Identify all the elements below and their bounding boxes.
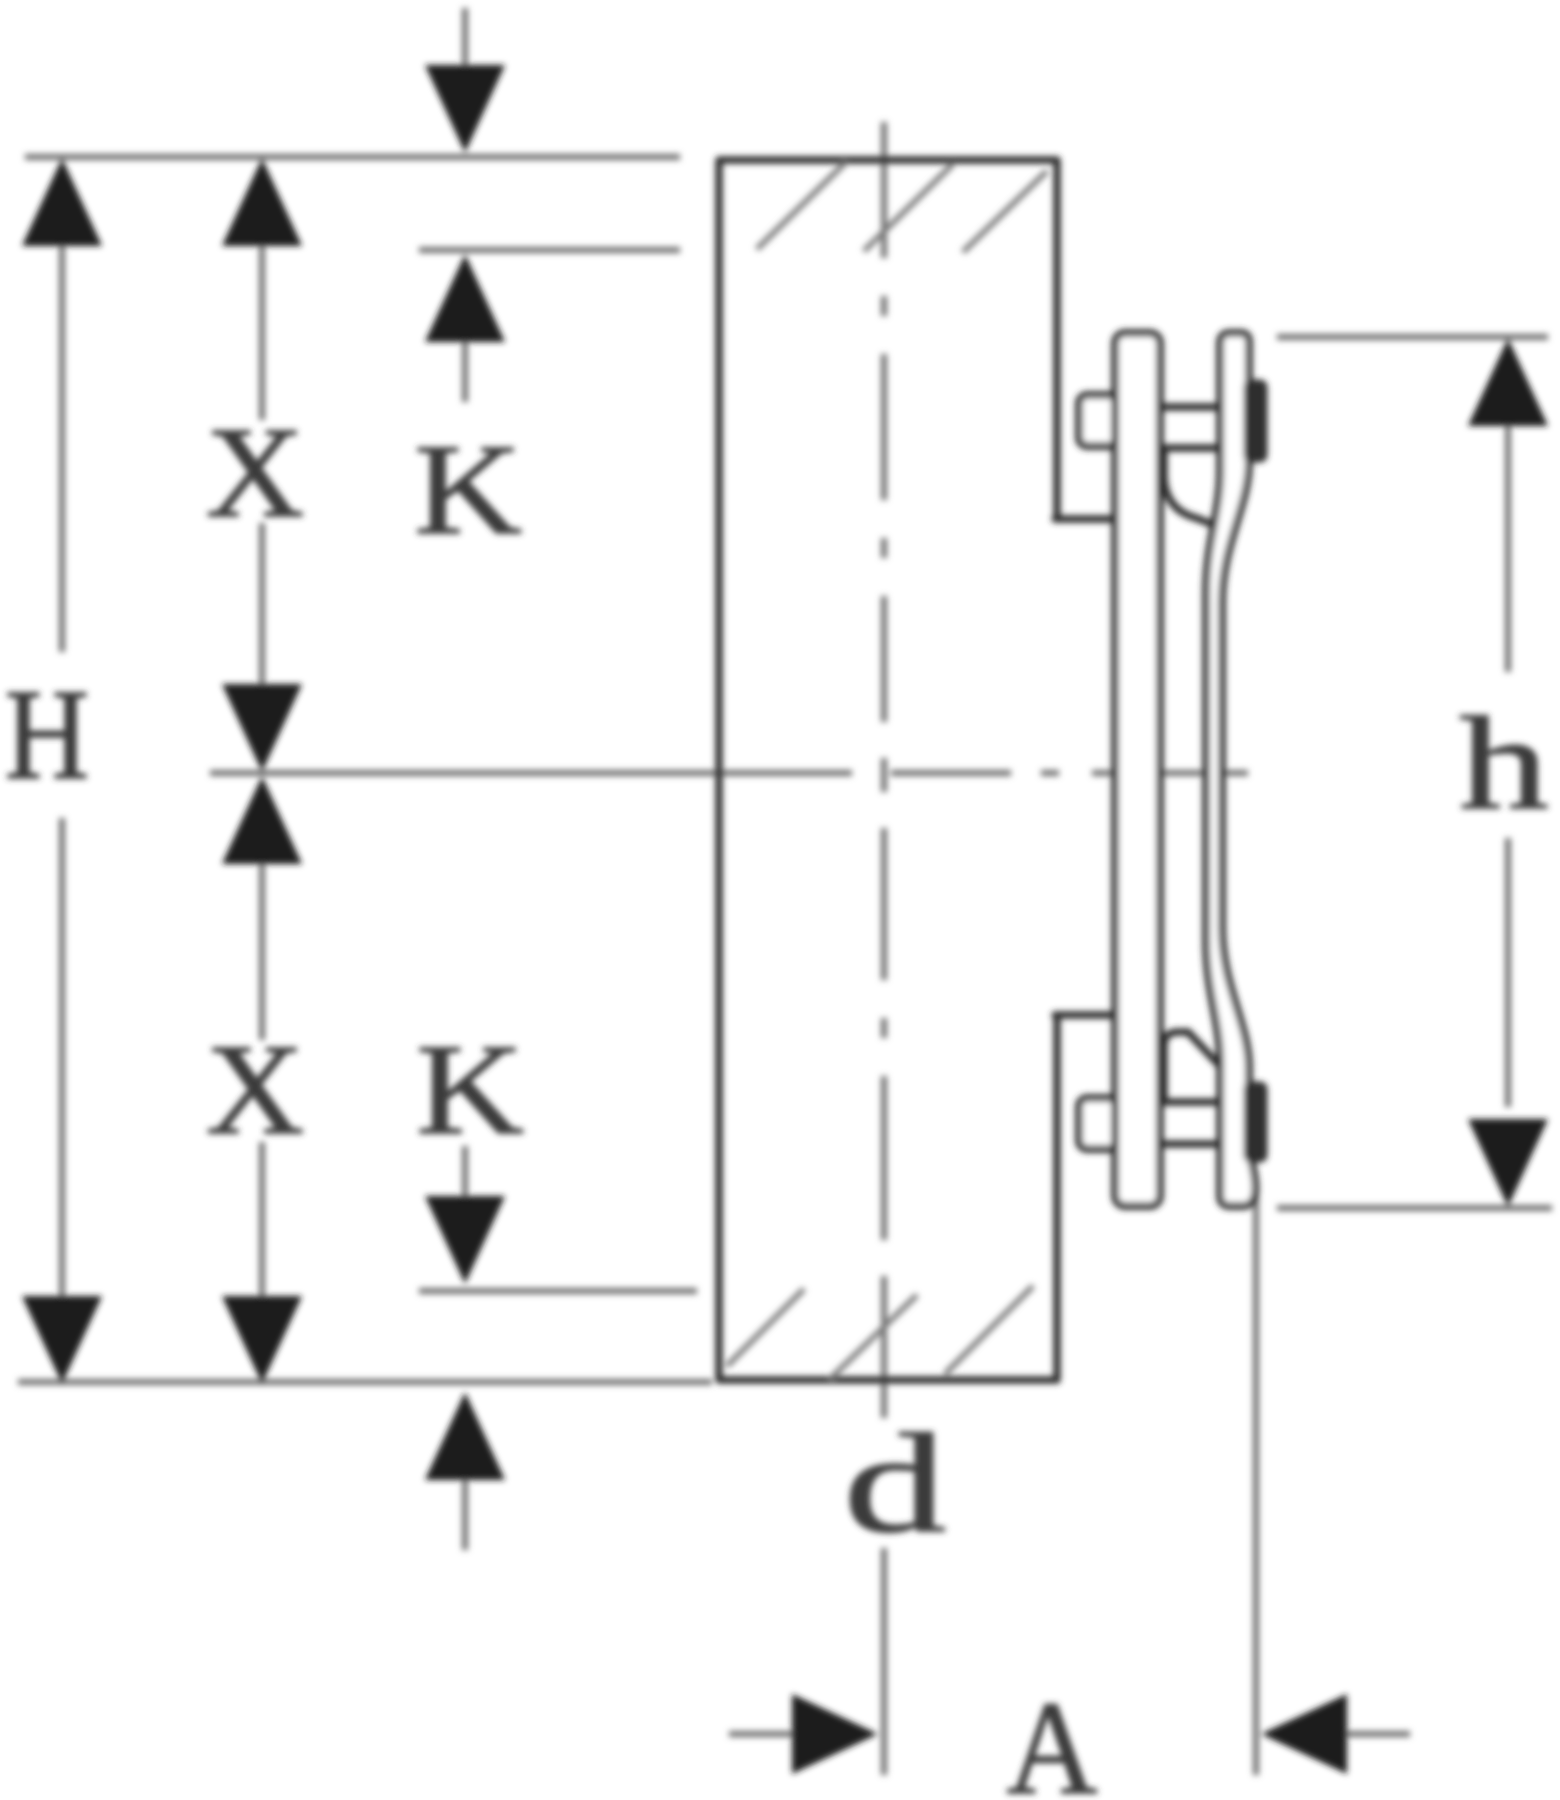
extension line top K <box>419 247 680 253</box>
dimension d arrow <box>729 1731 800 1737</box>
svg-text:H: H <box>5 662 89 806</box>
dimension H shaft <box>59 243 65 1300</box>
svg-text:X: X <box>206 400 305 544</box>
svg-text:A: A <box>1007 1674 1098 1800</box>
casting bottom <box>1164 1032 1218 1102</box>
bolt head bottom <box>1079 1098 1122 1149</box>
dimension K bottom shafts <box>462 1146 468 1550</box>
nut bottom <box>1245 1083 1266 1161</box>
dimension X bottom shaft <box>259 858 265 1298</box>
dimension H arrows <box>22 158 102 246</box>
extension line A vertical <box>1253 1190 1259 1775</box>
dimension X top arrows <box>222 158 302 246</box>
extension line bottom right <box>1277 1205 1552 1211</box>
dimension A arrow <box>1341 1731 1410 1737</box>
dimension K top shafts <box>462 8 468 402</box>
hatch top <box>757 162 1047 252</box>
dimension h shaft <box>1505 425 1511 1107</box>
dimension X bottom arrows <box>222 776 302 864</box>
clamp plate left <box>1115 333 1160 1206</box>
centerline vertical <box>881 122 887 1775</box>
dimension X top shaft <box>259 243 265 690</box>
svg-text:d: d <box>844 1405 947 1562</box>
bolt head top <box>1079 395 1122 446</box>
svg-text:K: K <box>416 1018 524 1162</box>
centerline horizontal <box>210 770 1248 776</box>
hatch bottom <box>727 1286 1033 1379</box>
dimension h arrows <box>1468 338 1548 426</box>
dimension K top arrows <box>425 65 505 153</box>
dimension K bottom arrows <box>425 1196 505 1284</box>
svg-text:X: X <box>206 1017 305 1161</box>
clamp plate right <box>1206 333 1255 1206</box>
extension line top <box>25 154 680 160</box>
bolt shaft bottom <box>1160 1102 1218 1144</box>
svg-text:h: h <box>1459 690 1549 837</box>
nut top <box>1245 381 1266 461</box>
svg-text:K: K <box>414 418 522 562</box>
extension line bottom K <box>419 1288 697 1294</box>
bolt shaft top <box>1160 407 1218 448</box>
extension line top right <box>1277 334 1548 340</box>
extension line bottom <box>18 1379 712 1385</box>
body outline <box>719 160 1117 1380</box>
casting top <box>1164 450 1217 526</box>
